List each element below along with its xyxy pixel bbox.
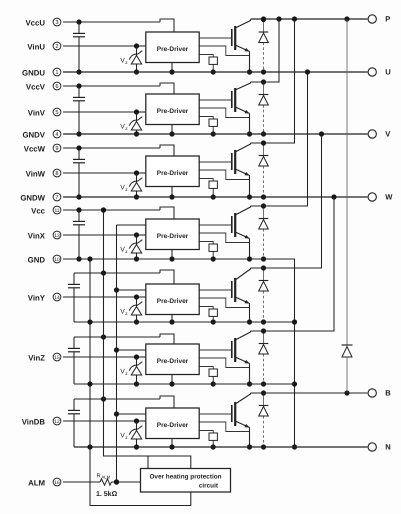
svg-text:Pre-Driver: Pre-Driver — [157, 298, 189, 305]
wire emitter sense Z — [199, 358, 249, 368]
svg-text:VinZ: VinZ — [28, 353, 45, 362]
svg-text:Pre-Driver: Pre-Driver — [157, 46, 189, 53]
transistor QX IGBT — [232, 206, 252, 262]
transistor QW IGBT — [232, 143, 252, 200]
op-amp UX pre-driver — [146, 219, 199, 250]
svg-text:P: P — [385, 15, 390, 24]
resistor RZ (gate) — [199, 367, 217, 387]
capacitor CDB (VccDB decoupling) — [68, 399, 80, 447]
transistor QY IGBT — [232, 268, 252, 325]
node P rail — [251, 16, 368, 21]
node U rail (GNDU) — [63, 69, 367, 74]
wire pre-driver DB ground pin — [169, 439, 174, 450]
terminal U — [368, 68, 391, 77]
zener diode Vz (DB input clamp) — [120, 421, 142, 450]
wire V collector — [251, 19, 280, 82]
wire Vcc feed DB — [74, 396, 174, 408]
op-amp UDB pre-driver — [146, 408, 199, 439]
wire pre-driver U ground pin — [169, 63, 174, 75]
pin VinY (14) — [28, 293, 61, 302]
node Y emitter rail — [74, 321, 295, 323]
wire W collector — [251, 19, 295, 143]
wire emitter sense Y — [199, 298, 249, 308]
wire gate drive U — [199, 37, 232, 39]
svg-text:ALM: ALM — [102, 474, 111, 479]
pin VinV (5) — [28, 108, 61, 117]
svg-text:3: 3 — [55, 20, 58, 26]
capacitor CZ (VccZ decoupling) — [68, 337, 80, 384]
svg-text:VinU: VinU — [27, 42, 45, 51]
svg-text:16: 16 — [54, 480, 60, 486]
svg-text:circuit: circuit — [199, 483, 219, 490]
svg-text:W: W — [385, 193, 393, 202]
node W rail (GNDW) — [63, 194, 367, 199]
wire VinY input — [63, 294, 146, 299]
svg-text:7: 7 — [55, 195, 58, 201]
resistor RU (gate) — [199, 55, 217, 75]
pin VinZ (15) — [28, 353, 61, 362]
zener diode Vz (X input clamp) — [120, 235, 142, 262]
svg-text:9: 9 — [55, 146, 58, 152]
zener diode Vz (U input clamp) — [120, 46, 142, 75]
svg-text:VinW: VinW — [26, 169, 46, 178]
wire Z collector — [251, 197, 335, 331]
svg-text:U: U — [385, 68, 391, 77]
capacitor CV (VccV decoupling) — [73, 86, 85, 137]
op-amp UZ pre-driver — [146, 344, 199, 375]
wire Vcc feed W — [63, 145, 174, 156]
wire pre-driver Y ground pin — [169, 315, 174, 325]
wire X collector — [251, 72, 308, 206]
pin VccW (9) — [24, 144, 61, 153]
svg-text:Pre-Driver: Pre-Driver — [157, 108, 189, 115]
resistor RX (gate) — [199, 242, 217, 262]
wire gate drive W — [199, 161, 232, 163]
zener diode Vz (V input clamp) — [120, 112, 142, 137]
svg-text:N: N — [385, 443, 390, 452]
svg-text:VinY: VinY — [28, 293, 46, 302]
wire VinX input — [63, 232, 146, 237]
svg-text:10: 10 — [54, 257, 60, 263]
transistor QV IGBT — [232, 82, 252, 137]
diode DDB freewheel — [259, 390, 269, 449]
svg-text:Vcc: Vcc — [31, 206, 46, 215]
svg-text:VinX: VinX — [28, 231, 46, 240]
wire VinW input — [63, 170, 146, 175]
wire Vcc feed U — [63, 19, 174, 32]
svg-text:4: 4 — [55, 132, 58, 138]
pin VccV (6) — [26, 82, 61, 91]
wire emitter sense DB — [199, 422, 249, 432]
wire shutdown/ALM input Y — [114, 287, 146, 292]
diode DZ freewheel — [259, 328, 269, 386]
wire Vcc feed Y — [74, 270, 174, 284]
wire emitter sense W — [199, 170, 249, 180]
pin GNDV (4) — [22, 130, 60, 139]
wire emitter sense V — [199, 108, 249, 118]
terminal W — [368, 193, 393, 202]
svg-text:ALM: ALM — [28, 478, 45, 487]
svg-text:1: 1 — [55, 70, 58, 76]
svg-text:z: z — [125, 372, 128, 377]
wire ALM bus — [114, 225, 119, 485]
wire gate drive Y — [199, 289, 232, 291]
wire VinV input — [63, 109, 146, 114]
svg-text:Pre-Driver: Pre-Driver — [157, 422, 189, 429]
wire Y collector — [251, 134, 322, 268]
resistor RDB (gate) — [199, 431, 217, 450]
svg-text:2: 2 — [55, 44, 58, 50]
over heating protection circuit U8 — [141, 469, 231, 493]
pin GND (10) — [28, 255, 61, 264]
wire VinZ input — [63, 354, 146, 359]
svg-text:12: 12 — [54, 419, 60, 425]
wire pre-driver X ground pin — [169, 250, 174, 262]
svg-text:VinDB: VinDB — [22, 417, 46, 426]
node GND rail (X emitter) — [63, 256, 297, 449]
wire VinU input — [63, 43, 146, 48]
pin VinDB (12) — [22, 417, 61, 426]
svg-text:GNDU: GNDU — [22, 68, 45, 77]
pin GNDU (1) — [22, 68, 61, 77]
pin GNDW (7) — [20, 193, 61, 202]
op-amp UW pre-driver — [146, 156, 199, 187]
zener diode Vz (W input clamp) — [120, 173, 142, 200]
wire gate drive X — [199, 224, 232, 226]
svg-text:6: 6 — [55, 84, 58, 90]
pin VinU (2) — [27, 42, 61, 51]
pin Vcc (11) — [31, 206, 61, 215]
svg-text:z: z — [125, 312, 128, 317]
diode DX freewheel — [259, 203, 269, 261]
wire GND bus — [87, 259, 190, 506]
node N rail — [74, 444, 367, 449]
transistor QZ IGBT — [232, 331, 252, 387]
op-amp UU pre-driver — [146, 32, 199, 63]
wire Vcc feed X — [63, 207, 174, 219]
svg-text:VinV: VinV — [28, 108, 46, 117]
wire gate drive V — [199, 99, 232, 101]
capacitor CW (VccW decoupling) — [73, 148, 85, 200]
pin ALM (16) — [28, 478, 61, 487]
svg-text:5: 5 — [55, 110, 58, 116]
wire pre-driver W ground pin — [169, 187, 174, 200]
wire shutdown/ALM input DB — [114, 411, 146, 416]
svg-text:GNDW: GNDW — [20, 193, 45, 202]
svg-text:z: z — [125, 188, 128, 193]
svg-text:GNDV: GNDV — [22, 130, 45, 139]
wire Vcc feed Z — [74, 334, 174, 344]
node Z emitter rail — [74, 383, 295, 385]
resistor RY (gate) — [199, 307, 217, 325]
wire VinDB input — [63, 418, 146, 423]
svg-text:Pre-Driver: Pre-Driver — [157, 170, 189, 177]
diode DW freewheel — [259, 140, 269, 199]
diode DV freewheel — [259, 79, 269, 136]
svg-text:VccV: VccV — [26, 82, 46, 91]
diode DU freewheel — [259, 17, 269, 75]
capacitor CX (VccX decoupling) — [73, 210, 85, 262]
svg-text:VccW: VccW — [24, 144, 46, 153]
svg-text:11: 11 — [54, 208, 59, 214]
wire pre-driver V ground pin — [169, 125, 174, 137]
wire gate drive Z — [199, 349, 232, 351]
diode DY freewheel — [259, 265, 269, 324]
terminal B — [368, 389, 391, 398]
svg-text:V: V — [385, 130, 391, 139]
svg-text:z: z — [125, 250, 128, 255]
svg-text:VccU: VccU — [25, 18, 45, 27]
svg-text:B: B — [385, 389, 391, 398]
wire protection box top tap — [147, 456, 149, 469]
terminal P — [368, 15, 390, 24]
zener diode Vz (Z input clamp) — [120, 357, 142, 387]
transistor QDB IGBT — [232, 393, 252, 450]
svg-text:GND: GND — [28, 255, 46, 264]
wire Vcc feed V — [63, 83, 174, 94]
wire Vcc bus — [101, 207, 191, 468]
resistor RW (gate) — [199, 179, 217, 200]
svg-text:1. 5kΩ: 1. 5kΩ — [96, 490, 118, 498]
pin VccU (3) — [25, 18, 60, 27]
wire gate drive DB — [199, 413, 232, 415]
capacitor CY (VccY decoupling) — [68, 273, 80, 322]
pin VinX (13) — [28, 231, 61, 240]
op-amp UY pre-driver — [146, 284, 199, 315]
node V rail (GNDV) — [63, 131, 367, 136]
pin VinW (8) — [26, 169, 61, 178]
terminal V — [368, 130, 391, 139]
terminal N — [368, 443, 391, 452]
svg-text:z: z — [125, 61, 128, 66]
wire emitter sense U — [199, 46, 249, 56]
wire shutdown/ALM input X — [117, 224, 146, 226]
node B line (brake collector) — [251, 390, 368, 395]
wire emitter sense X — [199, 233, 249, 243]
wire pre-driver Z ground pin — [169, 375, 174, 387]
svg-text:R: R — [97, 474, 101, 480]
svg-text:z: z — [125, 127, 128, 132]
svg-text:8: 8 — [55, 171, 58, 177]
svg-text:15: 15 — [54, 355, 60, 361]
svg-text:13: 13 — [54, 233, 60, 239]
capacitor CU (VccU decoupling) — [73, 22, 85, 75]
wire shutdown/ALM input Z — [114, 347, 146, 352]
svg-text:Pre-Driver: Pre-Driver — [157, 233, 189, 240]
svg-text:14: 14 — [54, 295, 60, 301]
resistor RV (gate) — [199, 117, 217, 137]
op-amp UV pre-driver — [146, 94, 199, 125]
svg-text:z: z — [125, 436, 128, 441]
svg-text:Pre-Driver: Pre-Driver — [157, 358, 189, 365]
zener diode Vz (Y input clamp) — [120, 297, 142, 325]
resistor R_ALM 1.5kOhm — [63, 474, 141, 499]
transistor QU IGBT — [232, 20, 252, 75]
svg-text:Over heating protection: Over heating protection — [149, 473, 221, 480]
diode DB brake (B to P) — [342, 19, 353, 393]
